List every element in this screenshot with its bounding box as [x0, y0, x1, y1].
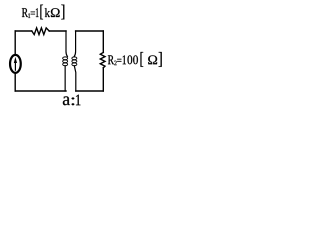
- wire right rail lower: [102, 68, 104, 91]
- wire top rail left segment (left loop): [15, 30, 32, 32]
- label R1: open bracket: [40, 5, 43, 20]
- label R2: digit 0: [133, 55, 138, 64]
- label a:1 : a: [63, 96, 70, 105]
- label R2: close bracket: [159, 52, 162, 67]
- transformer secondary winding loop 1: [72, 57, 77, 60]
- current source I1: [10, 55, 21, 73]
- wire top rail right segment (left loop): [49, 30, 66, 32]
- wire top rail (right loop): [76, 30, 104, 32]
- label R2: digit 0: [128, 55, 133, 64]
- label R1: subscript 1: [28, 13, 30, 18]
- wire left rail lower: [14, 73, 16, 91]
- label R2: open bracket: [141, 52, 144, 67]
- transformer secondary top stem: [74, 31, 75, 57]
- label a:1 : 1: [76, 95, 80, 106]
- wire right rail upper: [102, 31, 104, 52]
- label R2: subscript 2: [114, 61, 116, 65]
- label R1: close bracket: [61, 5, 64, 20]
- label R2: digit 1: [123, 55, 126, 64]
- label R1: equals: [31, 12, 35, 15]
- label a:1 : colon: [72, 98, 75, 106]
- label R2: R: [108, 55, 114, 64]
- label R1: Omega: [51, 8, 60, 17]
- transformer primary bottom stem: [64, 66, 66, 91]
- transformer primary winding loop 1: [63, 57, 68, 60]
- wire bottom rail (right loop): [76, 90, 104, 92]
- resistor R2: [100, 52, 105, 67]
- transformer primary winding loop 2: [63, 60, 68, 63]
- transformer secondary winding loop 2: [72, 60, 77, 63]
- resistor R1: [32, 28, 49, 35]
- label R1: value 1: [36, 8, 39, 17]
- label R2: equals: [117, 59, 121, 62]
- label R1: R: [22, 8, 28, 17]
- transformer primary top stem: [66, 31, 67, 57]
- current source arrow: [14, 62, 16, 70]
- transformer primary winding loop 3: [63, 63, 68, 66]
- wire left rail upper: [14, 31, 16, 54]
- transformer secondary winding loop 3: [72, 63, 77, 66]
- label R2: Omega: [148, 55, 157, 64]
- label R1: k: [45, 8, 50, 17]
- wire bottom rail (left loop): [15, 90, 66, 92]
- transformer secondary bottom stem: [74, 66, 75, 91]
